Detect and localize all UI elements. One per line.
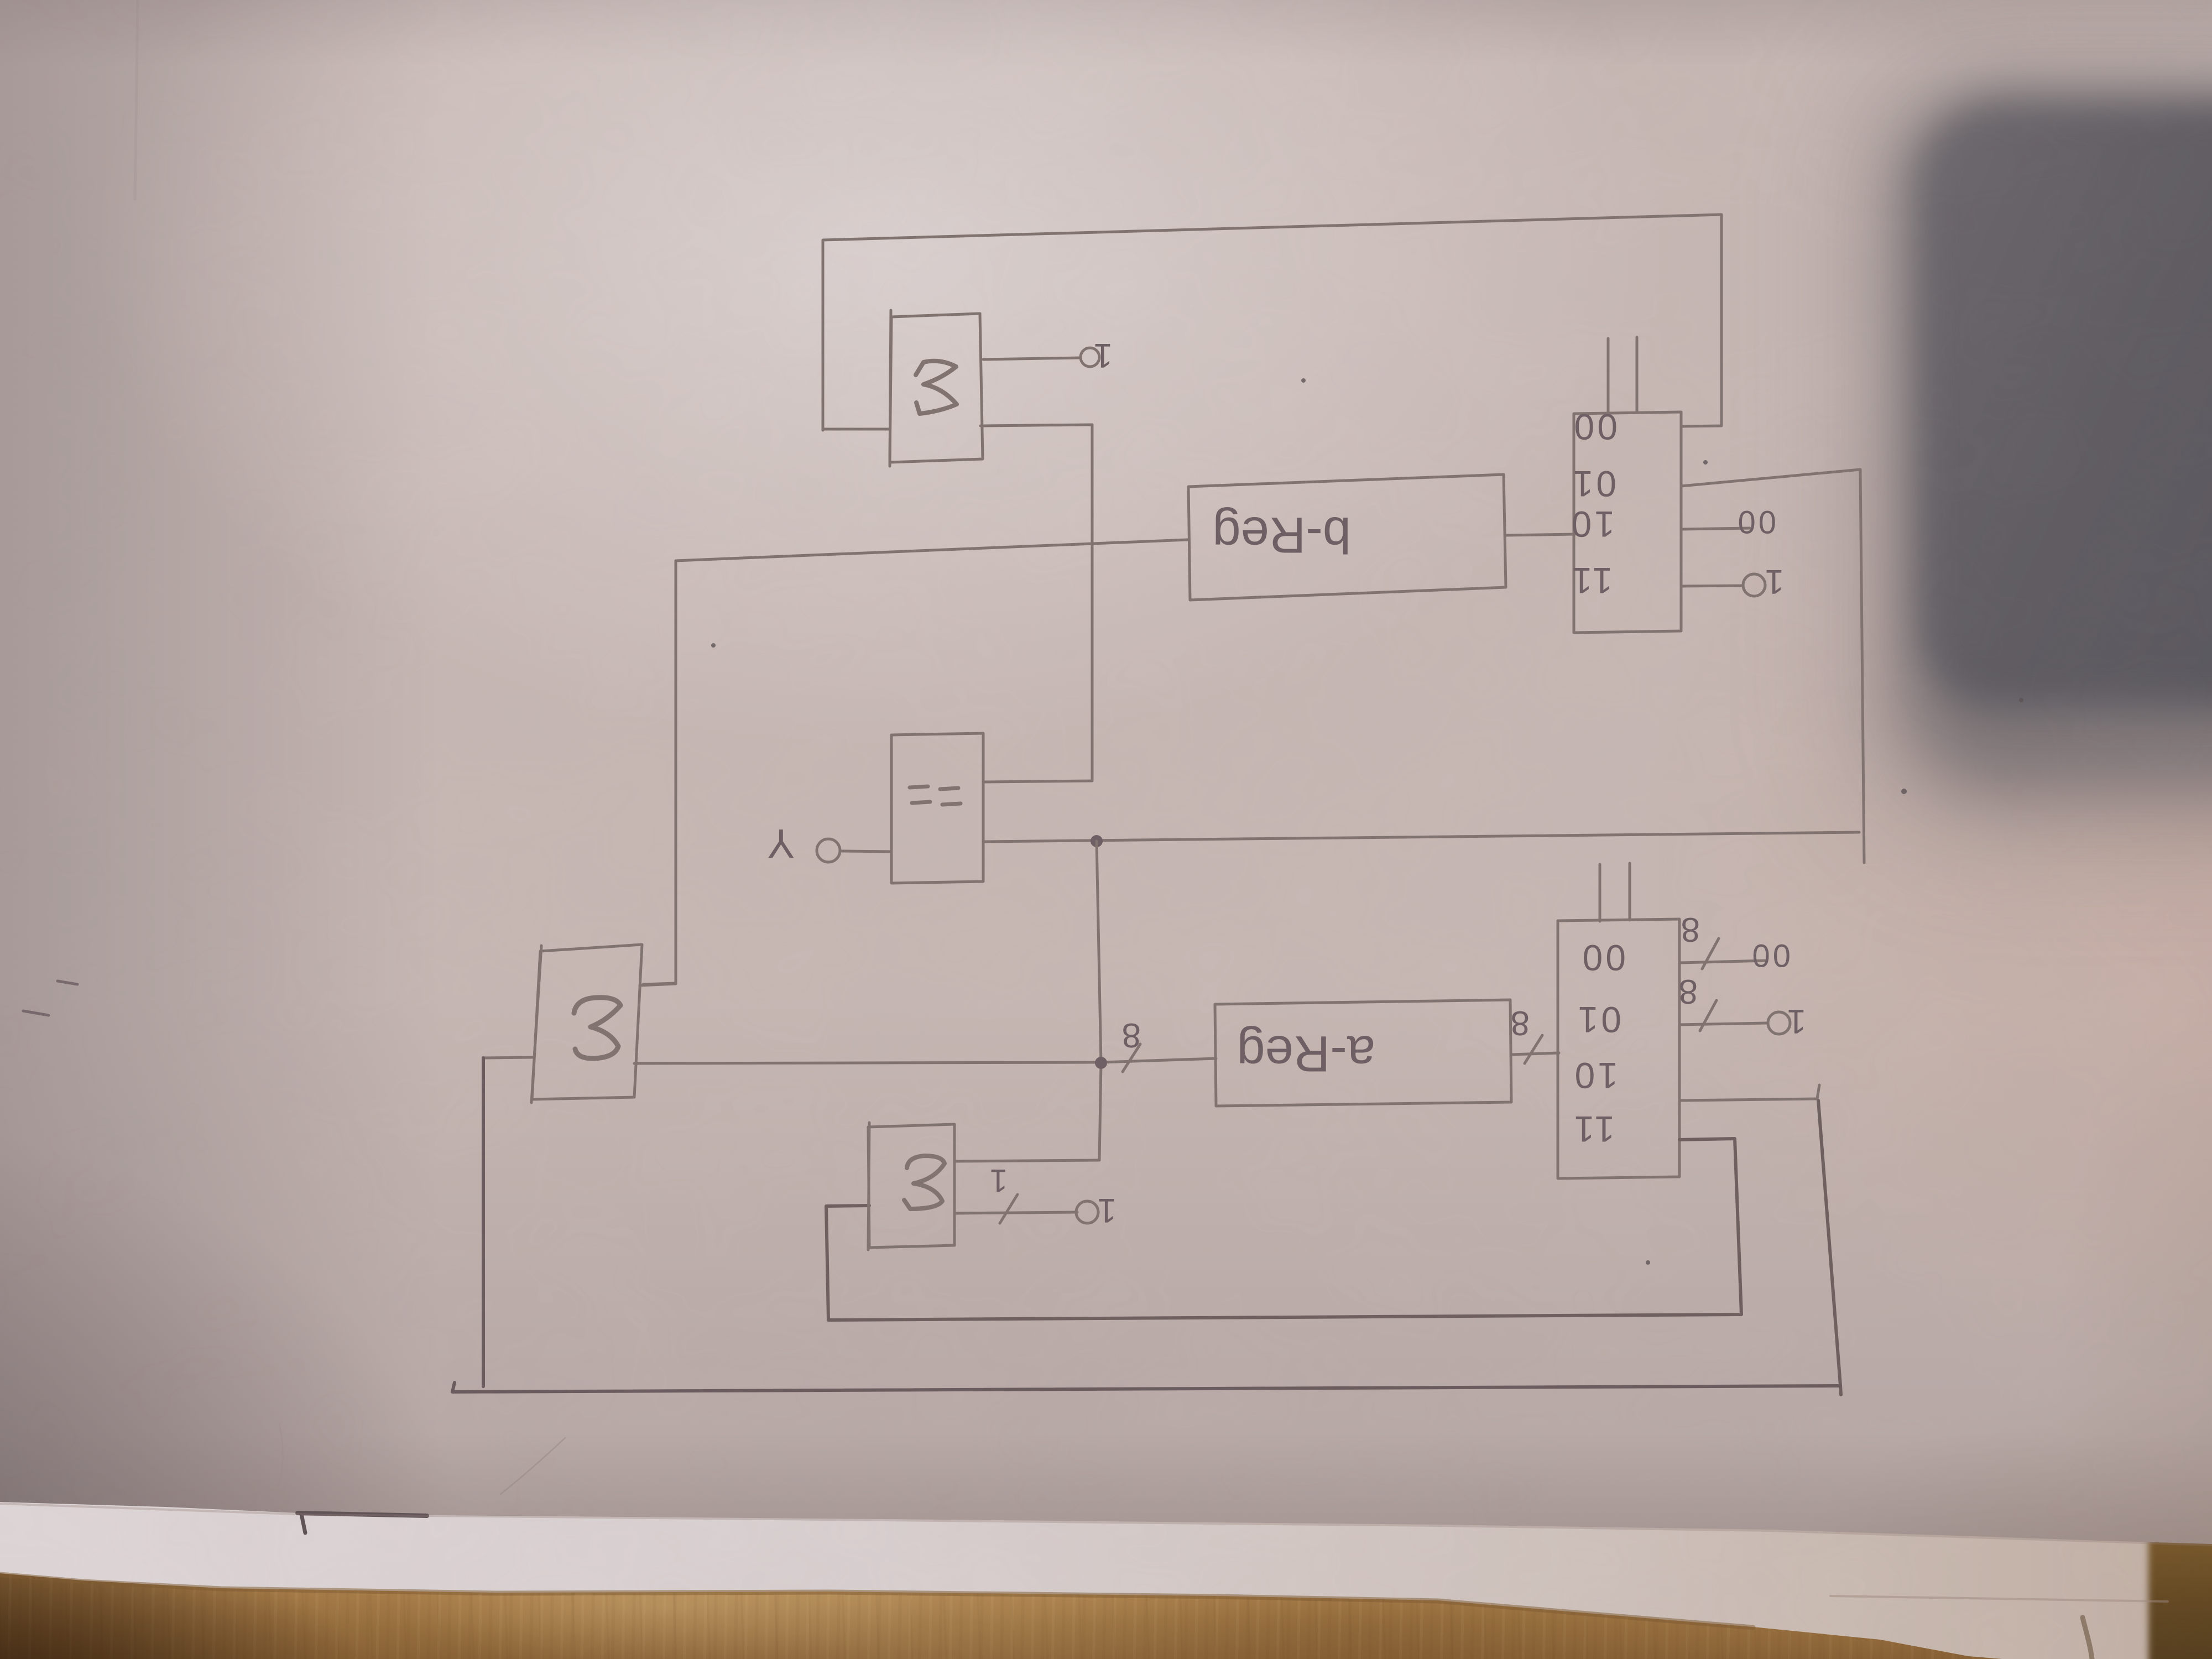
junction dot (comparator output / center vertical) [1091, 835, 1103, 847]
dark bottom-left wood corner [0, 1532, 365, 1659]
wire sigma1 output to comparator [980, 425, 1092, 782]
bus slash sigma2 stub [1000, 1194, 1018, 1223]
adder U4 (sigma, photo bottom middle) [868, 1123, 954, 1250]
shadow just above sheet edge [0, 1432, 2212, 1548]
bus slash mux2 01 stub [1700, 1000, 1717, 1031]
stray hair line above sheet edge [500, 1438, 565, 1494]
node terminal circle (sigma2 stub) [1076, 1201, 1098, 1223]
wire mux1 01-output long line to right [1681, 469, 1864, 863]
wire mux1 10-output stub [1681, 528, 1750, 529]
bus slash a-bus [1123, 1044, 1140, 1072]
wood vignette bottom [0, 1576, 2212, 1659]
wire center vertical (comparator to a-bus to sigma2) [1097, 841, 1101, 1160]
clock ticks mux M1 [1607, 338, 1610, 413]
comparator U2 (==) [891, 733, 983, 883]
junction dot (a-bus / center vertical) [1095, 1057, 1107, 1069]
under sheet (second paper) [0, 1438, 2212, 1659]
wire sigma3 left input [483, 1057, 533, 1058]
dark object shadow top-right : penumbra [1853, 53, 2212, 843]
wire comparator Y output stub [842, 851, 891, 852]
wire b-bus down to sigma3 [643, 561, 676, 984]
wire mux2 01-output stub [1679, 1023, 1767, 1025]
wire a-Reg to mux2 [1511, 1053, 1559, 1055]
adder U3 (big sigma, photo left) [531, 945, 642, 1103]
stray pencil mark on sheet edge [298, 1513, 427, 1516]
dark object shadow core [1919, 105, 2212, 708]
wire mux2 00-output stub [1679, 961, 1767, 963]
bus slash a-Reg to mux2 [1525, 1035, 1542, 1063]
wire bottom big loop [452, 1383, 1840, 1392]
stray faint curve left [276, 1424, 283, 1492]
wire mux2 11-output inner loop [826, 1139, 1741, 1320]
clock ticks mux M2 [1599, 864, 1601, 921]
wire sigma1 left input [823, 428, 890, 431]
adder U1 (sigma, photo top-left) [890, 310, 983, 466]
sheet edge faint line bottom-right [1830, 1596, 2168, 1601]
wire comparator output to right vertical [984, 832, 1859, 842]
wire outer feedback loop (b side, photo top) [823, 215, 1721, 430]
dust specks [711, 378, 2023, 1265]
node terminal circle (mux2 01 stub) [1768, 1012, 1790, 1034]
small ticks left edge [58, 981, 77, 984]
bus slash mux2 00 stub [1702, 938, 1719, 969]
wire b-Reg to mux1 [1505, 534, 1575, 535]
mux M1 (b side) [1569, 406, 1681, 633]
node terminal circle (Y) [817, 839, 840, 862]
wire mux1 11-output stub [1681, 586, 1742, 586]
wire a-bus from sigma3 to a-Reg [634, 1058, 1216, 1063]
wire b-bus (node B) [676, 540, 1187, 561]
register b-Reg [1188, 474, 1506, 600]
wire mux2 10-output to bottom right corner [1679, 1085, 1819, 1100]
node terminal circle (mux1 11 stub) [1743, 574, 1765, 596]
dark shadowed wood wedge along right edge [2148, 1524, 2212, 1659]
dark streak on sheet bottom-right [2083, 1618, 2092, 1659]
wire left loop vertical [482, 1058, 485, 1386]
wire sigma3 top jog [640, 984, 676, 985]
top sheet edge shadow line [0, 1504, 2212, 1545]
wire sigma1 constant input stub [983, 358, 1080, 359]
register a-Reg [1215, 1000, 1511, 1106]
mux M2 (a side) [1558, 919, 1679, 1178]
wood table surface at bottom [0, 1488, 2212, 1659]
faint paper crease top-left [135, 0, 138, 199]
shadow under sheet along wood top [0, 1574, 1753, 1627]
node terminal circle (sigma1 stub) [1081, 348, 1099, 367]
wire sigma2 constant stub [954, 1212, 1077, 1213]
wire sigma2 output up to center vertical [954, 1160, 1099, 1161]
